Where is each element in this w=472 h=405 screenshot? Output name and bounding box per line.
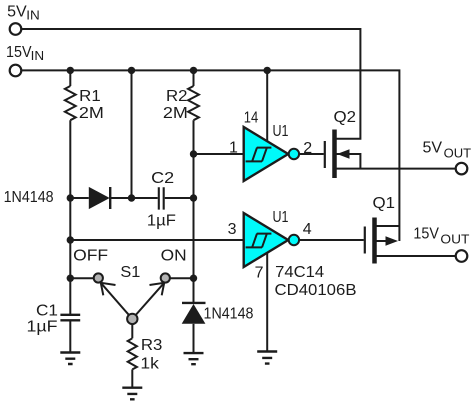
wire pin 14 <box>266 70 268 141</box>
label U1 top <box>273 123 289 140</box>
svg-text:OUT: OUT <box>444 146 472 160</box>
label 15VIN <box>6 44 44 63</box>
label R1 2M <box>79 88 104 122</box>
wire bubble to Q1 gate <box>299 239 364 241</box>
label 1N4148 left <box>4 189 54 206</box>
diode D2 1N4148 <box>182 303 206 353</box>
hysteresis symbol U1A <box>246 148 272 162</box>
svg-text:5V: 5V <box>7 4 27 21</box>
wire R2 vertical upper <box>193 70 195 86</box>
label pin 1 <box>229 139 238 156</box>
svg-text:15V: 15V <box>6 44 32 61</box>
svg-text:R1: R1 <box>79 88 101 105</box>
wire bubble to Q2 gate <box>299 153 324 155</box>
label pin 14 <box>244 109 259 126</box>
svg-text:1N4148: 1N4148 <box>204 306 254 323</box>
label 15VOUT <box>413 226 469 247</box>
svg-text:1µF: 1µF <box>147 212 176 229</box>
Q1 body arrow <box>386 236 399 246</box>
label ON <box>161 247 187 264</box>
svg-text:R2: R2 <box>166 88 188 105</box>
ground C1 <box>60 353 80 365</box>
switch pole <box>127 314 137 324</box>
wire pin 7 to ground <box>266 253 268 352</box>
svg-text:3: 3 <box>228 221 237 238</box>
svg-text:S1: S1 <box>120 264 140 281</box>
node 15VIN terminal <box>10 65 22 77</box>
wire R3 to ground <box>131 369 133 387</box>
node 15VOUT terminal <box>456 250 468 262</box>
node 5VOUT terminal <box>456 163 468 175</box>
wire pin 1 input <box>194 153 244 155</box>
label C2 value <box>147 212 176 229</box>
node 5VIN terminal <box>10 23 22 35</box>
label R2 2M <box>163 88 188 122</box>
label 5VIN <box>7 4 40 23</box>
output bubble U1B pin 4 <box>289 235 299 245</box>
svg-text:1k: 1k <box>140 355 160 372</box>
ground R3 <box>122 388 142 400</box>
svg-text:Q2: Q2 <box>334 109 357 126</box>
svg-text:1N4148: 1N4148 <box>4 189 54 206</box>
transistor Q1 <box>365 218 456 264</box>
label R3 1k <box>140 337 162 372</box>
wire middle vertical <box>131 70 133 198</box>
svg-text:C1: C1 <box>36 303 58 320</box>
node pin3 dot <box>67 236 74 243</box>
ground D2 <box>184 353 204 364</box>
wire to OFF contact <box>70 277 94 279</box>
svg-text:4: 4 <box>303 221 312 238</box>
resistor R1 <box>65 86 76 120</box>
capacitor C2 <box>159 187 194 209</box>
wire C1 to ground <box>69 321 71 352</box>
svg-text:74C14: 74C14 <box>275 264 324 281</box>
capacitor C1 <box>60 315 80 321</box>
wire 5V rail to Q2 drain <box>22 29 361 139</box>
switch contact OFF <box>94 273 103 282</box>
svg-text:ON: ON <box>161 247 187 264</box>
svg-text:IN: IN <box>26 9 40 23</box>
svg-text:Q1: Q1 <box>373 195 396 212</box>
switch contact ON <box>161 273 170 282</box>
node switch row dots <box>67 275 198 282</box>
svg-text:OFF: OFF <box>73 247 108 264</box>
svg-text:1µF: 1µF <box>27 319 58 336</box>
output bubble U1A pin 2 <box>289 149 299 159</box>
label pin 3 <box>228 221 237 238</box>
node pin1 tap dot <box>190 150 197 157</box>
label C1 <box>36 303 58 320</box>
Q2 body arrow <box>337 149 350 159</box>
diode D1 1N4148 <box>70 187 157 209</box>
wire pin 3 input <box>70 239 243 241</box>
svg-text:2M: 2M <box>79 105 104 122</box>
svg-text:14: 14 <box>244 109 259 126</box>
switch arrow right <box>150 283 165 296</box>
label pin 2 <box>303 140 312 157</box>
op-amp U1 inverter B <box>244 213 289 267</box>
svg-text:1: 1 <box>229 139 238 156</box>
svg-text:IN: IN <box>31 49 44 63</box>
label S1 <box>120 264 140 281</box>
wire pole to R3 <box>131 324 133 339</box>
svg-text:R3: R3 <box>141 337 163 354</box>
wire left vertical to C1 <box>69 120 71 314</box>
svg-text:CD40106B: CD40106B <box>275 282 357 299</box>
label Q2 <box>334 109 357 126</box>
junction dots 15V rail <box>67 67 271 74</box>
hysteresis symbol U1B <box>246 234 272 248</box>
ground pin 7 <box>257 352 277 364</box>
label 1N4148 bottom <box>204 306 254 323</box>
resistor R2 <box>188 86 199 120</box>
label C2 <box>151 170 174 187</box>
junction dots diode row <box>67 194 198 201</box>
svg-text:C2: C2 <box>151 170 174 187</box>
label pin 4 <box>303 221 312 238</box>
label OFF <box>73 247 108 264</box>
svg-text:2M: 2M <box>163 105 188 122</box>
label 5VOUT <box>423 140 472 161</box>
svg-text:U1: U1 <box>273 209 289 226</box>
op-amp U1 inverter A <box>244 127 289 181</box>
transistor Q2 <box>325 130 456 179</box>
switch arrow left <box>101 283 116 296</box>
label pin 7 <box>255 265 264 282</box>
label 74C14 <box>275 264 324 281</box>
label Q1 <box>373 195 396 212</box>
resistor R3 <box>128 338 137 369</box>
svg-text:U1: U1 <box>273 123 289 140</box>
wire from ON contact <box>170 277 194 279</box>
wire R2 vertical to diode D2 <box>193 120 195 302</box>
svg-text:5V: 5V <box>423 140 443 157</box>
label U1 bottom <box>273 209 289 226</box>
switch S1 pole lines <box>101 283 164 319</box>
svg-text:7: 7 <box>255 265 264 282</box>
wire left vertical upper <box>69 70 71 86</box>
svg-text:15V: 15V <box>413 226 439 243</box>
label C1 value <box>27 319 58 336</box>
wire 15V rail down to Q1 <box>22 70 400 241</box>
label CD40106B <box>275 282 357 299</box>
svg-text:OUT: OUT <box>440 232 469 246</box>
